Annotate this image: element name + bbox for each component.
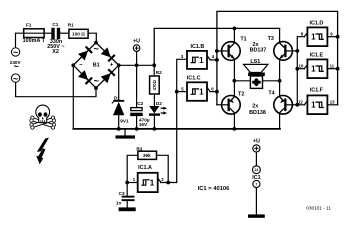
svg-text:1: 1 [133,177,136,182]
svg-text:IC1.A: IC1.A [138,165,152,171]
svg-text:B1: B1 [93,62,100,68]
svg-text:4: 4 [212,54,215,59]
svg-text:100 Ω: 100 Ω [72,31,85,36]
svg-text:−: − [79,63,83,69]
svg-text:8: 8 [301,31,304,36]
svg-text:C1: C1 [52,22,58,27]
svg-text:1: 1 [199,56,204,65]
svg-text:1: 1 [311,101,316,110]
svg-text:IC1.D: IC1.D [310,21,324,27]
svg-text:1n: 1n [116,201,122,206]
svg-text:12: 12 [298,100,303,105]
svg-text:F1: F1 [26,22,32,27]
svg-text:~: ~ [94,76,99,86]
svg-text:+: + [110,63,114,69]
svg-text:IC1 = 40106: IC1 = 40106 [198,186,231,192]
svg-text:10: 10 [299,63,304,68]
svg-text:11: 11 [330,63,335,68]
svg-text:470Ω: 470Ω [152,79,157,90]
svg-text:R3: R3 [136,147,142,152]
svg-text:IC1: IC1 [252,175,260,181]
svg-text:1: 1 [199,88,204,97]
svg-text:X2: X2 [52,49,59,55]
svg-text:~: ~ [14,62,19,72]
svg-text:6: 6 [211,86,214,91]
svg-text:IC1.F: IC1.F [310,87,324,93]
svg-text:~: ~ [94,44,99,54]
svg-text:C2: C2 [137,101,143,106]
svg-text:1: 1 [311,65,316,74]
svg-text:030101 - 11: 030101 - 11 [306,206,331,211]
svg-text:3: 3 [181,54,184,59]
svg-text:+U: +U [253,139,260,145]
svg-text:IC1.E: IC1.E [310,53,324,59]
svg-text:R1: R1 [68,23,74,28]
svg-text:BD137: BD137 [250,47,267,53]
svg-text:T4: T4 [268,90,274,96]
svg-text:14: 14 [254,168,258,172]
svg-text:39k: 39k [143,153,151,158]
svg-text:100mA T: 100mA T [23,38,46,44]
svg-text:~: ~ [13,48,18,58]
svg-text:9V1: 9V1 [120,119,129,124]
svg-text:T3: T3 [268,36,274,42]
svg-text:13: 13 [330,100,335,105]
svg-text:1: 1 [150,178,155,187]
svg-text:T1: T1 [240,36,246,42]
svg-text:7: 7 [255,182,257,186]
svg-text:C3: C3 [119,191,125,196]
svg-text:5: 5 [181,86,184,91]
svg-text:9: 9 [330,31,333,36]
svg-text:BD138: BD138 [249,110,266,116]
svg-text:~: ~ [13,74,18,84]
svg-text:R2: R2 [156,70,162,75]
svg-text:2: 2 [161,177,164,182]
svg-text:16V: 16V [139,122,148,127]
svg-text:IC1.B: IC1.B [191,44,205,50]
svg-text:IC1.C: IC1.C [187,75,201,81]
svg-text:1: 1 [311,33,316,42]
svg-text:D1: D1 [114,96,120,101]
svg-text:2x: 2x [252,104,258,110]
svg-text:LS1: LS1 [250,59,260,65]
svg-text:D2: D2 [156,101,162,106]
svg-text:T2: T2 [238,91,244,97]
svg-text:+U: +U [133,39,140,45]
